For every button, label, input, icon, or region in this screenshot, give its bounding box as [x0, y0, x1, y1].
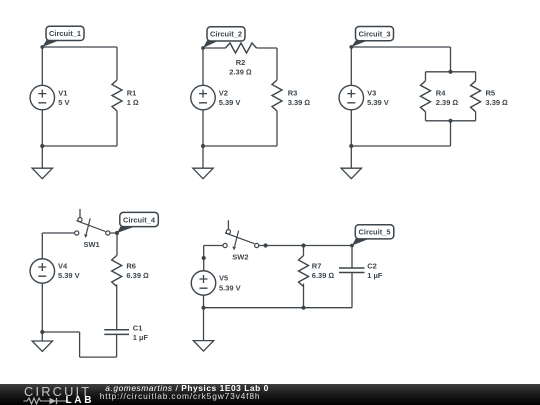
- svg-text:R2: R2: [236, 58, 246, 67]
- svg-text:Circuit_1: Circuit_1: [49, 29, 81, 38]
- svg-text:5.39 V: 5.39 V: [219, 98, 241, 107]
- svg-text:C2: C2: [367, 262, 377, 271]
- svg-text:2.39 Ω: 2.39 Ω: [436, 98, 459, 107]
- svg-text:V1: V1: [58, 89, 67, 98]
- svg-text:6.39 Ω: 6.39 Ω: [126, 271, 149, 280]
- svg-text:Circuit_4: Circuit_4: [123, 215, 156, 224]
- svg-text:SW2: SW2: [232, 253, 248, 262]
- svg-text:Circuit_5: Circuit_5: [358, 228, 390, 237]
- svg-text:5.39 V: 5.39 V: [367, 98, 389, 107]
- svg-text:6.39 Ω: 6.39 Ω: [312, 271, 335, 280]
- svg-text:C1: C1: [133, 324, 143, 333]
- svg-text:3.39 Ω: 3.39 Ω: [486, 98, 509, 107]
- svg-text:1 Ω: 1 Ω: [127, 98, 139, 107]
- svg-text:R4: R4: [436, 89, 446, 98]
- svg-text:R5: R5: [486, 89, 496, 98]
- svg-text:V3: V3: [367, 89, 376, 98]
- svg-text:5.39 V: 5.39 V: [58, 271, 80, 280]
- svg-text:R3: R3: [288, 89, 298, 98]
- svg-text:1 µF: 1 µF: [367, 271, 383, 280]
- svg-text:V5: V5: [219, 274, 228, 283]
- svg-text:Circuit_2: Circuit_2: [210, 30, 242, 39]
- svg-text:2.39 Ω: 2.39 Ω: [229, 68, 252, 77]
- svg-text:V2: V2: [219, 89, 228, 98]
- svg-text:V4: V4: [58, 262, 68, 271]
- svg-text:SW1: SW1: [83, 240, 99, 249]
- svg-text:Circuit_3: Circuit_3: [358, 29, 390, 38]
- svg-text:5 V: 5 V: [58, 98, 69, 107]
- svg-text:R6: R6: [126, 261, 136, 270]
- svg-text:5.39 V: 5.39 V: [219, 284, 241, 293]
- svg-text:1 µF: 1 µF: [133, 333, 149, 342]
- svg-text:R1: R1: [127, 89, 137, 98]
- svg-text:3.39 Ω: 3.39 Ω: [288, 98, 311, 107]
- svg-text:R7: R7: [312, 261, 322, 270]
